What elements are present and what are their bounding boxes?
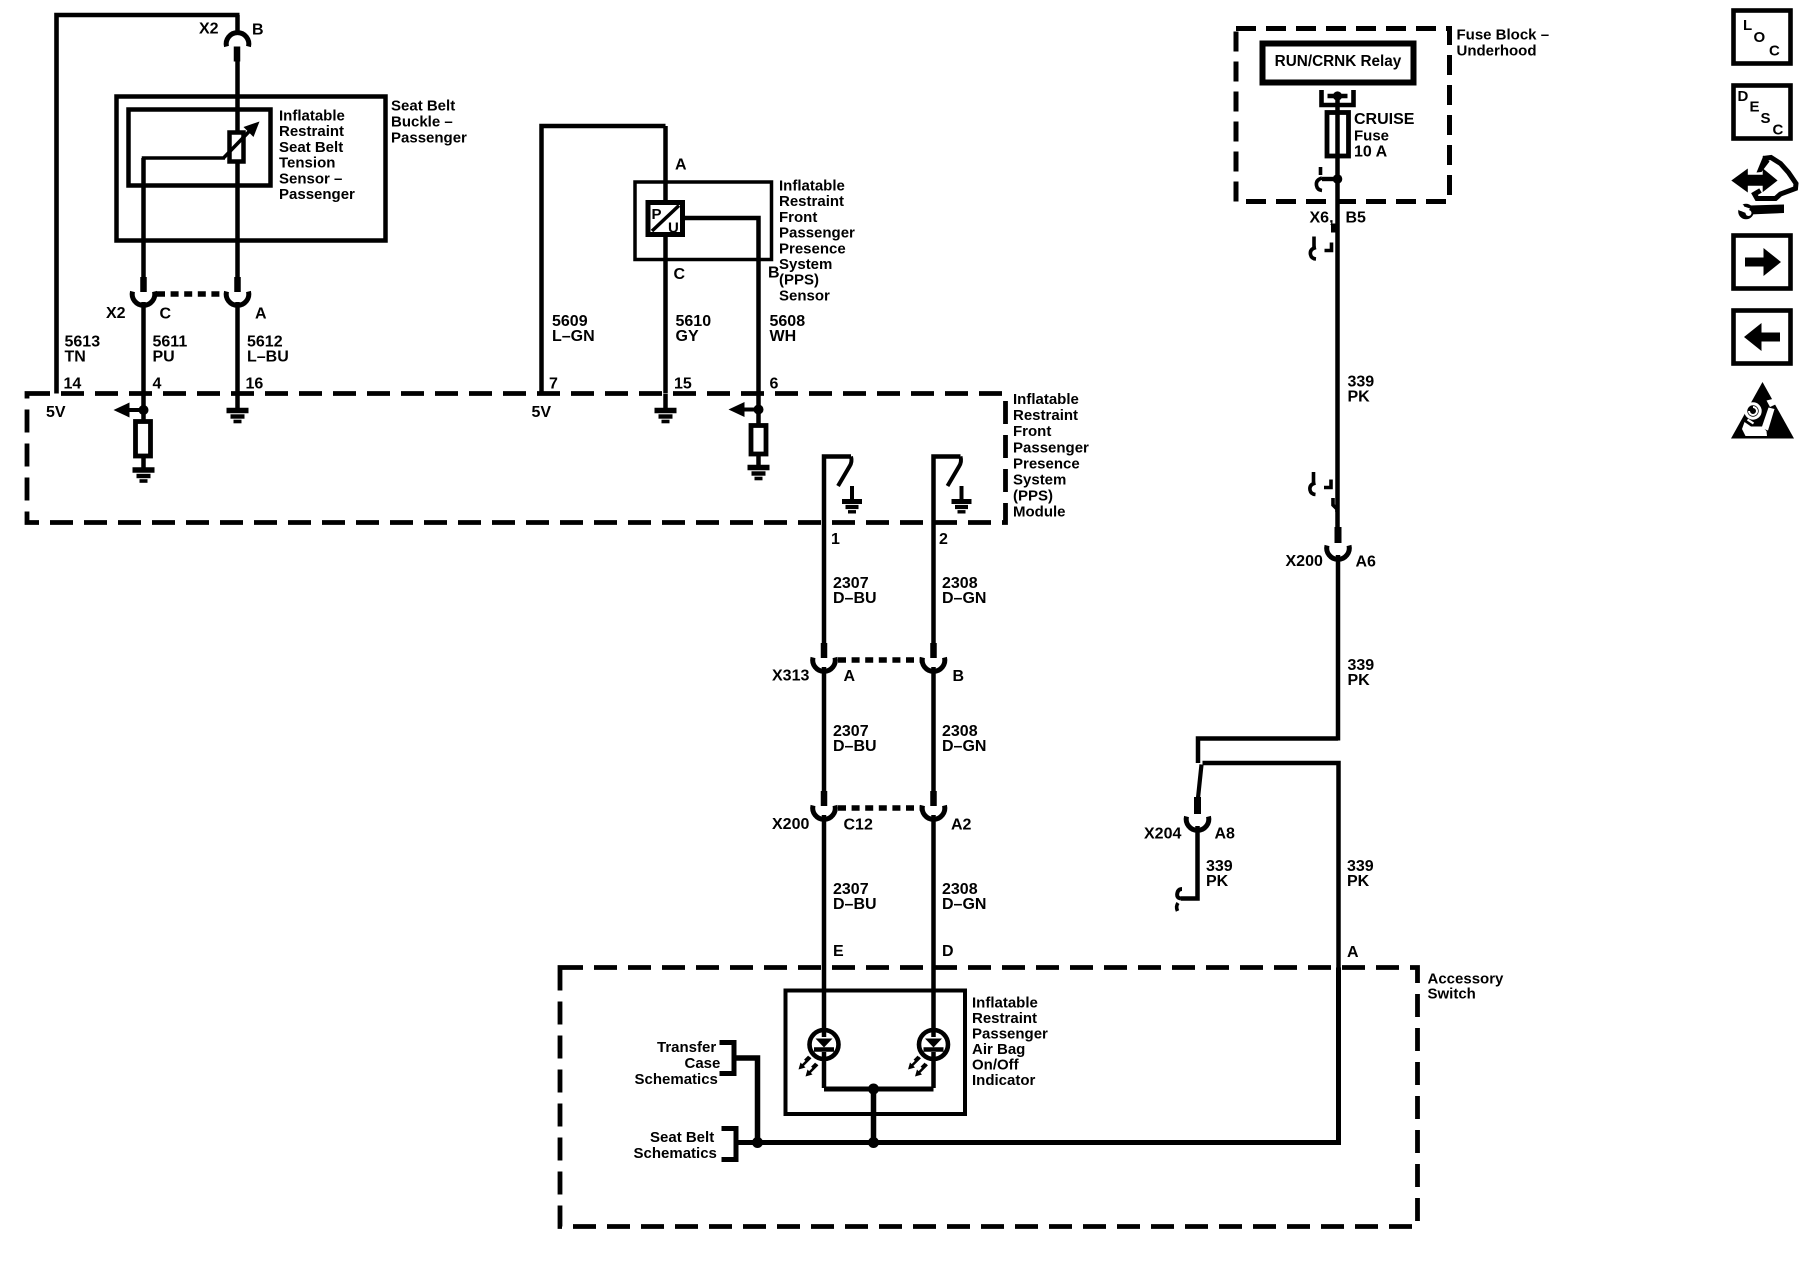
junction dot transfer/seat belt [752,1137,763,1148]
svg-text:Underhood: Underhood [1457,43,1537,60]
svg-text:E: E [1750,99,1760,116]
svg-text:C: C [160,306,172,323]
svg-text:S: S [1761,110,1771,127]
pin 4 internal: arrow left [114,403,130,418]
pin 4 junction dot [139,405,149,415]
svg-text:RUN/CRNK Relay: RUN/CRNK Relay [1275,53,1402,70]
svg-text:Fuse Block –: Fuse Block – [1457,27,1550,44]
wire X204 A8 down to continuation hook [1181,826,1198,899]
dashed connector tie X2 C-A [157,291,225,297]
wire X2 C to module pin 4 [141,302,146,394]
svg-text:X204: X204 [1144,826,1181,843]
wire 2307 D-BU X313 A to X200 C12 [822,667,827,793]
pin 4 ground [133,470,155,481]
svg-text:Inflatable: Inflatable [972,995,1038,1012]
svg-text:10 A: 10 A [1354,144,1388,161]
wire from X2 B to tension sensor [235,61,240,133]
CRUISE fuse 10A [1327,113,1349,157]
svg-text:A: A [675,157,687,174]
svg-text:Seat Belt: Seat Belt [650,1129,714,1146]
PPS module dashed box [27,394,1006,523]
svg-text:U: U [668,220,679,237]
connector X313 A male stub [821,643,828,658]
svg-text:B: B [252,22,264,39]
svg-text:PK: PK [1348,389,1371,406]
svg-text:Presence: Presence [779,240,846,257]
connector X200 A2 male stub [930,791,937,806]
svg-text:D–BU: D–BU [833,896,877,913]
svg-text:A: A [255,306,267,323]
wire jog lower [1203,763,1339,968]
svg-text:Front: Front [1013,423,1051,440]
svg-text:D–GN: D–GN [942,896,986,913]
connector X2 pin B male stub [234,47,241,62]
dashed connector tie X200 C12-A2 [838,805,921,811]
icon LOC button [1734,11,1791,64]
pin 6 resistor [751,426,766,455]
svg-text:TN: TN [65,349,86,366]
junction dot on seat belt wire [868,1137,879,1148]
svg-text:System: System [1013,472,1066,489]
accessory switch dashed box [560,968,1418,1227]
LED 2 (passenger air bag off indicator) [908,991,948,1088]
svg-text:Air Bag: Air Bag [972,1041,1025,1058]
svg-text:Restraint: Restraint [972,1010,1037,1027]
wire 5613 TN from module pin 14 up and over to connector X2 B [57,15,240,394]
svg-text:Inflatable: Inflatable [779,178,845,195]
svg-text:A8: A8 [1215,826,1236,843]
connector X200 A6 female cup [1327,546,1350,560]
svg-text:14: 14 [64,376,82,393]
wire pin A drop [663,126,668,204]
pin 4 wire to resistor [141,394,146,422]
icon fix-it (double arrow and wrench) [1734,156,1797,220]
connector X200 C12 female cup [813,806,836,820]
connector X204 A8 female cup [1186,817,1209,831]
fuse output clip and dot [1322,177,1338,181]
LED common wire [824,1087,934,1092]
svg-text:Presence: Presence [1013,455,1080,472]
svg-text:B: B [953,668,965,685]
svg-text:Passenger: Passenger [972,1026,1048,1043]
wire 5608 WH from P/U box right to pin B drop [683,218,759,394]
pin 15 wire to ground [663,394,668,409]
svg-text:System: System [779,256,832,273]
svg-text:Sensor –: Sensor – [279,170,342,187]
wire 2307 D-BU X200 C12 to accessory switch pin E [822,815,827,991]
PPS sensor P/U transducer box [648,203,683,235]
X6 splice squiggle [1310,237,1331,260]
sensor arrow head [244,122,260,138]
pin 6 wire to ground [756,454,761,466]
svg-text:D: D [1738,88,1749,105]
P/U diagonal [652,206,679,232]
svg-text:Switch: Switch [1428,986,1476,1003]
svg-text:Transfer: Transfer [657,1039,716,1056]
svg-text:Indicator: Indicator [972,1072,1036,1089]
svg-text:Inflatable: Inflatable [1013,391,1079,408]
svg-text:Passenger: Passenger [279,186,355,203]
svg-text:L–GN: L–GN [552,328,595,345]
svg-text:Seat Belt: Seat Belt [279,139,343,156]
X6 male stub mark [1331,224,1336,233]
svg-text:O: O [1754,29,1766,46]
svg-text:Sensor: Sensor [779,287,830,304]
svg-text:B: B [768,265,780,282]
tension sensor inner box [129,110,271,186]
svg-text:Case: Case [685,1055,721,1072]
svg-text:PU: PU [153,349,175,366]
svg-text:15: 15 [674,376,692,393]
svg-text:Passenger: Passenger [391,130,467,147]
fuse block underhood dashed box [1236,29,1450,202]
seat belt schematics bracket [722,1129,737,1160]
svg-text:Module: Module [1013,504,1066,521]
svg-text:5V: 5V [532,404,552,421]
connector X204 A8 male stub [1194,797,1201,814]
seat belt buckle box [117,97,386,241]
pin 4 wire to ground [141,456,146,468]
X200 A6 splice squiggle [1310,472,1337,512]
svg-text:PK: PK [1206,873,1229,890]
svg-text:On/Off: On/Off [972,1057,1020,1074]
PPS module switch 1 [824,457,862,524]
svg-text:Restraint: Restraint [1013,407,1078,424]
icon back arrow button [1734,311,1791,364]
pin 6 ground [748,468,770,479]
junction dot at LED common [868,1084,879,1095]
svg-text:D: D [942,943,954,960]
svg-text:P: P [652,206,662,223]
pin 6 internal: arrow left [729,402,745,417]
svg-text:C: C [1773,122,1784,139]
svg-text:X6,: X6, [1310,210,1334,227]
wire 2307 D-BU module pin 1 to X313 A [822,523,827,645]
connector X200 C12 male stub [821,791,828,806]
continuation hook terminal [1177,889,1182,899]
icon SIR airbag warning triangle [1731,382,1794,439]
svg-text:A: A [844,668,856,685]
wire 2308 D-GN module pin 2 to X313 B [931,523,936,645]
wire X2 B drop into buckle box [235,15,240,34]
svg-text:PK: PK [1348,672,1371,689]
svg-text:X200: X200 [772,816,809,833]
wire diagonal to X204 stub [1198,765,1202,799]
pin 15 ground [655,411,677,422]
svg-text:PK: PK [1347,873,1370,890]
svg-text:(PPS): (PPS) [779,272,819,289]
wire X2 A to module pin 16 [235,302,240,394]
indicator box [786,991,966,1115]
svg-text:D–GN: D–GN [942,590,986,607]
svg-text:X2: X2 [106,305,126,322]
svg-text:Inflatable: Inflatable [279,108,345,125]
svg-text:5V: 5V [46,404,66,421]
pin 6 junction dot [754,405,764,415]
wire transfer case bracket to junction [734,1058,758,1143]
fuse bus bracket [1322,90,1354,105]
svg-text:L: L [1743,17,1752,34]
wire seat belt schematics to accessory pin A [736,968,1339,1143]
connector X2 pin C female cup [132,292,155,306]
PPS module switch 2 [934,457,972,524]
svg-text:A: A [1347,944,1359,961]
connector X200 A2 female cup [922,806,945,820]
wire 2308 D-GN X200 A2 to accessory switch pin D [931,815,936,991]
svg-text:WH: WH [770,328,797,345]
wire jog to X204 [1198,739,1338,764]
icon forward arrow button [1734,236,1791,289]
variable tension sensor element (resistor with arrow) [230,133,244,162]
svg-text:Buckle –: Buckle – [391,114,453,131]
svg-text:Fuse: Fuse [1354,128,1389,145]
svg-text:GY: GY [676,328,699,345]
svg-text:C: C [1769,43,1780,60]
svg-text:Seat Belt: Seat Belt [391,98,455,115]
pin 16 wire to ground [235,394,240,409]
svg-text:X200: X200 [1286,553,1323,570]
PPS sensor box [635,182,772,260]
connector X313 B female cup [922,658,945,672]
wire 2308 D-GN X313 B to X200 A2 [931,667,936,793]
connector X2 pin B (female arc opening down) [226,33,249,47]
svg-text:16: 16 [246,376,264,393]
svg-text:A2: A2 [951,817,972,834]
svg-text:2: 2 [939,531,948,548]
svg-text:CRUISE: CRUISE [1354,111,1415,128]
wire 339 PK fuse to X6 B5 [1335,179,1340,539]
connector X313 A female cup [813,658,836,672]
pin 6 wire to resistor [756,394,761,426]
svg-text:A6: A6 [1356,554,1377,571]
svg-text:C12: C12 [844,817,873,834]
svg-text:Passenger: Passenger [1013,439,1089,456]
tension sensor internal tap wire [144,158,226,185]
svg-text:4: 4 [153,376,162,393]
connector X2 pin C male stub [140,277,147,292]
svg-text:Front: Front [779,209,817,226]
svg-text:L–BU: L–BU [247,349,289,366]
wire bus tap to fuse [1335,96,1340,114]
pin 4 resistor [136,422,151,457]
svg-text:6: 6 [770,376,779,393]
wire 5610 GY pin C drop to module pin 15 [663,235,668,394]
RUN/CRNK relay box [1263,44,1414,83]
wire 5609 L-GN from module pin 7 up and over to PPS sensor pin A [542,126,666,394]
svg-text:C: C [674,266,686,283]
svg-text:X2: X2 [199,21,219,38]
connector X313 B male stub [930,643,937,658]
svg-text:7: 7 [549,376,558,393]
fuse bus tap bar and dot [1328,94,1348,98]
svg-text:X313: X313 [772,668,809,685]
wire LED common down to seat belt schematics wire [871,1089,877,1143]
svg-text:B5: B5 [1346,210,1367,227]
svg-text:D–BU: D–BU [833,738,877,755]
icon DESC button [1734,86,1791,139]
svg-text:1: 1 [831,531,840,548]
LED 1 (passenger air bag on indicator) [799,991,839,1088]
svg-text:Passenger: Passenger [779,225,855,242]
wire 5611 PU from sensor tap down to X2 C [141,158,146,277]
svg-text:D–BU: D–BU [833,590,877,607]
transfer case schematics bracket [720,1043,735,1074]
svg-text:Tension: Tension [279,155,335,172]
svg-text:E: E [833,943,844,960]
connector X2 pin A female cup [226,292,249,306]
wire 339 PK X200 A6 down [1336,555,1341,741]
svg-text:Schematics: Schematics [635,1071,718,1088]
svg-text:Restraint: Restraint [779,193,844,210]
svg-text:D–GN: D–GN [942,738,986,755]
svg-text:Schematics: Schematics [634,1145,717,1162]
svg-text:Restraint: Restraint [279,123,344,140]
pin 16 ground [227,411,249,422]
svg-text:(PPS): (PPS) [1013,488,1053,505]
connector X2 pin A male stub [234,277,241,292]
connector X200 A6 male stub [1335,527,1342,543]
dashed connector tie X313 A-B [838,657,921,663]
wire 5612 L-BU from sensor down to X2 A [235,161,240,277]
